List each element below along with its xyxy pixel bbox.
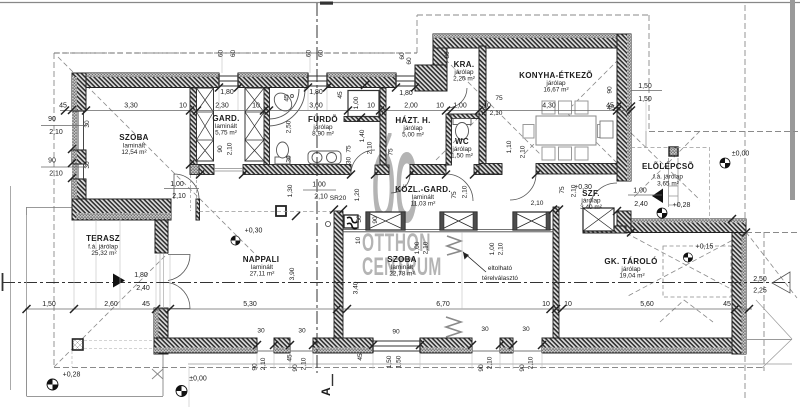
- kitchen counter box: [600, 121, 613, 138]
- svg-text:2,60: 2,60: [104, 301, 118, 308]
- svg-text:90: 90: [252, 363, 259, 371]
- page top border line: [0, 2, 800, 4]
- door thresholds bottom band: [257, 350, 274, 352]
- dims rotated: [84, 50, 614, 372]
- svg-text:NAPPALI: NAPPALI: [243, 255, 280, 264]
- svg-text:90: 90: [372, 216, 379, 224]
- svg-text:5,00 m²: 5,00 m²: [402, 132, 424, 139]
- survey marker elolepcso right: [720, 158, 730, 168]
- svg-text:25,32 m²: 25,32 m²: [91, 250, 116, 257]
- roller shutter circle SR20: [325, 221, 330, 226]
- svg-text:3,90: 3,90: [289, 267, 296, 280]
- svg-text:3,65 m²: 3,65 m²: [657, 181, 679, 188]
- svg-text:10: 10: [564, 301, 572, 308]
- svg-text:FÜRDÕ: FÜRDÕ: [308, 115, 338, 124]
- dim slash ticks: [23, 81, 754, 349]
- section A bottom label: [319, 374, 333, 396]
- wall szf-west: [553, 207, 559, 338]
- survey marker entrance: [657, 208, 667, 218]
- svg-text:+0,28: +0,28: [63, 372, 81, 379]
- svg-text:TERASZ: TERASZ: [86, 234, 120, 243]
- svg-text:1,00: 1,00: [312, 182, 326, 189]
- svg-text:10: 10: [355, 237, 362, 245]
- svg-text:SR20: SR20: [330, 195, 347, 202]
- svg-text:30: 30: [257, 328, 265, 335]
- wall kra-wc east: [479, 46, 486, 165]
- svg-text:90: 90: [292, 364, 299, 372]
- wall szoba-south band: [72, 199, 171, 220]
- terrace slab thin outline: [27, 207, 164, 397]
- svg-text:2,10: 2,10: [520, 145, 527, 158]
- door-width triangle terrace: [113, 274, 125, 288]
- svg-text:1,00: 1,00: [633, 188, 647, 195]
- svg-text:SZOBA: SZOBA: [119, 133, 149, 142]
- svg-text:2,50: 2,50: [753, 276, 767, 283]
- door wc arc: [446, 174, 473, 201]
- wardrobe rail corridor: [343, 230, 553, 232]
- svg-text:1,40: 1,40: [359, 129, 366, 142]
- dim line left row: [41, 125, 86, 127]
- page left border line: [10, 186, 12, 390]
- svg-text:27,11 m²: 27,11 m²: [250, 271, 275, 278]
- wall niche-bottom: [344, 117, 380, 122]
- dim line bottom row: [25, 308, 752, 310]
- svg-text:1,50: 1,50: [638, 83, 652, 90]
- svg-text:1,50: 1,50: [42, 301, 56, 308]
- wardrobe gard right column: [245, 88, 264, 161]
- survey marker terrace sw: [47, 379, 58, 390]
- svg-text:2,10: 2,10: [49, 129, 63, 136]
- dim line szoba door: [164, 188, 199, 190]
- svg-text:2,10: 2,10: [301, 357, 308, 370]
- svg-text:45: 45: [284, 94, 291, 102]
- svg-text:90: 90: [48, 158, 56, 165]
- toilet furdo: [275, 142, 290, 164]
- svg-text:1,00: 1,00: [489, 242, 496, 255]
- east hollow triangle: [772, 272, 790, 293]
- shelf niche furdo: [348, 91, 379, 117]
- dim line entrance door: [628, 194, 662, 196]
- svg-text:10: 10: [252, 103, 260, 110]
- svg-text:2,10: 2,10: [462, 185, 469, 198]
- svg-text:KÖZL.-GARD.: KÖZL.-GARD.: [395, 185, 451, 194]
- svg-text:60: 60: [306, 50, 313, 58]
- svg-text:16,67 m²: 16,67 m²: [543, 87, 568, 94]
- svg-text:+0,15: +0,15: [696, 244, 714, 251]
- svg-text:75: 75: [346, 145, 353, 153]
- chimney: [344, 215, 358, 229]
- svg-text:1,50: 1,50: [396, 355, 403, 368]
- wall hazt-west: [380, 88, 386, 165]
- toilet wc: [453, 119, 471, 140]
- svg-text:3,40 m²: 3,40 m²: [580, 204, 602, 211]
- svg-text:±0,00: ±0,00: [732, 151, 750, 158]
- svg-text:A: A: [319, 387, 333, 396]
- svg-text:30: 30: [522, 326, 530, 333]
- section line A-A vertical: [316, 3, 318, 373]
- section B left tick: [2, 273, 4, 291]
- gable thin diagonals bottom right: [756, 300, 792, 368]
- watermark Otthon Centrum logo: [362, 131, 442, 281]
- wall bottom band pieces: [154, 338, 257, 353]
- wall wing-west: [433, 34, 447, 65]
- door kra arc: [447, 88, 467, 108]
- window west szoba lower: [77, 164, 79, 179]
- svg-text:45: 45: [142, 301, 150, 308]
- door szoba arc: [174, 174, 199, 199]
- svg-text:4,30: 4,30: [542, 103, 556, 110]
- kitchen chairs: [523, 101, 610, 160]
- survey marker nappali: [231, 236, 240, 245]
- wall gard-west: [190, 88, 197, 174]
- svg-text:2,00: 2,00: [404, 103, 418, 110]
- svg-text:6,70: 6,70: [436, 301, 450, 308]
- svg-text:90: 90: [217, 145, 224, 153]
- svg-text:f.á. járólap: f.á. járólap: [653, 174, 683, 181]
- svg-text:75: 75: [388, 148, 395, 156]
- svg-text:KONYHA-ÉTKEZÕ: KONYHA-ÉTKEZÕ: [519, 71, 593, 80]
- svg-text:1,00: 1,00: [170, 181, 184, 188]
- svg-text:1,80: 1,80: [399, 90, 413, 97]
- svg-text:11,03 m²: 11,03 m²: [411, 201, 436, 208]
- wall gk-top band: [626, 219, 746, 233]
- svg-text:1,10: 1,10: [506, 140, 513, 153]
- survey marker garage: [683, 253, 692, 262]
- wall szf-south band: [583, 226, 626, 233]
- svg-text:1,00: 1,00: [353, 96, 360, 109]
- svg-text:45: 45: [59, 103, 67, 110]
- leader arrow eltolhato: [463, 252, 486, 272]
- svg-text:1,00: 1,00: [414, 241, 421, 254]
- dim line top row: [60, 110, 631, 112]
- svg-text:2,10: 2,10: [367, 141, 374, 154]
- svg-text:2,10: 2,10: [49, 171, 63, 178]
- window bottom nappali-szoba 1,50+1,50: [373, 340, 420, 342]
- svg-text:2,10: 2,10: [498, 242, 505, 255]
- svg-text:60: 60: [218, 50, 225, 58]
- svg-text:GARD.: GARD.: [212, 114, 239, 123]
- svg-text:2,10: 2,10: [172, 193, 186, 200]
- svg-text:10: 10: [483, 103, 491, 110]
- svg-text:8,90 m²: 8,90 m²: [312, 131, 334, 138]
- svg-text:75: 75: [451, 191, 458, 199]
- wall nappali-west lower: [154, 308, 168, 354]
- door terrace frame lines: [159, 254, 161, 308]
- svg-text:30: 30: [298, 328, 306, 335]
- svg-text:HÁZT. H.: HÁZT. H.: [395, 116, 430, 125]
- wall main-west: [72, 73, 86, 111]
- svg-text:1,50: 1,50: [638, 96, 652, 103]
- door-width triangle entrance: [652, 189, 663, 204]
- section A top tick: [320, 2, 333, 5]
- svg-text:GK. TÁROLÓ: GK. TÁROLÓ: [604, 257, 657, 266]
- svg-text:10: 10: [542, 301, 550, 308]
- svg-text:60: 60: [230, 50, 237, 58]
- svg-text:19,04 m²: 19,04 m²: [619, 273, 644, 280]
- svg-text:2,10: 2,10: [490, 110, 503, 117]
- door furdo arc: [351, 150, 375, 174]
- wardrobe corridor D: [583, 208, 614, 231]
- svg-text:3,40: 3,40: [353, 281, 360, 294]
- svg-text:30: 30: [346, 157, 353, 165]
- svg-text:1,20: 1,20: [354, 188, 361, 201]
- svg-text:5,30: 5,30: [243, 301, 257, 308]
- svg-text:ELÕLÉPCSÕ: ELÕLÉPCSÕ: [642, 162, 694, 171]
- svg-text:45: 45: [607, 105, 615, 112]
- bathtub corner furdo: [269, 88, 305, 126]
- svg-text:KRA.: KRA.: [454, 60, 475, 69]
- svg-text:WC: WC: [455, 137, 469, 146]
- svg-text:2,10: 2,10: [314, 194, 328, 201]
- svg-text:2,10: 2,10: [227, 142, 234, 155]
- door gard threshold: [214, 168, 243, 170]
- garage parking dashed rectangle: [663, 246, 731, 297]
- svg-text:80: 80: [444, 51, 451, 59]
- svg-text:45: 45: [357, 353, 364, 361]
- svg-text:10: 10: [367, 103, 375, 110]
- svg-text:90: 90: [519, 364, 526, 372]
- kitchen table: [536, 116, 596, 145]
- svg-text:2,10: 2,10: [260, 357, 267, 370]
- dim line 60-row dashed: [54, 52, 417, 54]
- svg-text:1,80: 1,80: [220, 89, 234, 96]
- svg-text:45: 45: [337, 91, 344, 99]
- column nappali: [276, 206, 286, 216]
- svg-text:45: 45: [287, 354, 294, 362]
- svg-text:+0,30: +0,30: [245, 228, 263, 235]
- wall wing-east: [617, 34, 631, 181]
- column terrace: [73, 339, 84, 350]
- window top 1,80 hazt: [396, 75, 415, 77]
- svg-text:2,10: 2,10: [423, 241, 430, 254]
- dim projection light lines: [72, 341, 154, 368]
- wardrobe gard left column: [197, 88, 214, 161]
- wall gard-east: [264, 88, 270, 165]
- svg-text:1,00: 1,00: [453, 103, 467, 110]
- svg-text:térelválasztó: térelválasztó: [482, 275, 518, 282]
- window west szoba upper: [77, 111, 79, 150]
- wall main-top hatch pieces: [72, 73, 219, 88]
- wardrobe corridor A: [366, 212, 405, 230]
- svg-text:±0,00: ±0,00: [189, 376, 207, 383]
- window top 1,80 gard: [219, 75, 238, 77]
- svg-text:3,30: 3,30: [124, 103, 138, 110]
- svg-text:SZOBA: SZOBA: [387, 255, 417, 264]
- survey marker bottom center: [176, 386, 187, 397]
- svg-text:2,10: 2,10: [571, 184, 578, 197]
- wall entrance piece: [617, 211, 631, 233]
- svg-text:50: 50: [356, 215, 363, 223]
- wardrobe corridor C: [513, 212, 550, 230]
- svg-text:30: 30: [84, 161, 91, 169]
- svg-text:30: 30: [286, 155, 293, 163]
- svg-text:90: 90: [48, 116, 56, 123]
- svg-text:12,54 m²: 12,54 m²: [121, 149, 146, 156]
- washbasin double furdo: [308, 151, 341, 164]
- svg-text:75: 75: [559, 186, 566, 194]
- window top 1,80 furdo: [308, 75, 327, 77]
- svg-text:10: 10: [436, 103, 444, 110]
- svg-text:30: 30: [84, 120, 91, 128]
- svg-text:1,50 m²: 1,50 m²: [451, 153, 473, 160]
- svg-text:1,80: 1,80: [134, 272, 148, 279]
- wardrobe corridor B: [440, 212, 477, 230]
- interior partitions: [190, 88, 617, 338]
- svg-text:1,30: 1,30: [287, 184, 294, 197]
- svg-text:45: 45: [723, 301, 731, 308]
- wall wc-top: [451, 114, 479, 119]
- svg-text:22,78 m²: 22,78 m²: [389, 271, 414, 278]
- svg-text:2,20 m²: 2,20 m²: [453, 76, 475, 83]
- roof hip dashed diagonals: [54, 48, 797, 367]
- svg-text:eltolható: eltolható: [488, 265, 513, 272]
- svg-text:90: 90: [478, 364, 485, 372]
- svg-text:2,50: 2,50: [286, 120, 293, 133]
- wall wc-west: [446, 114, 452, 165]
- svg-text:+0,28: +0,28: [673, 202, 691, 209]
- svg-text:60: 60: [399, 52, 406, 60]
- door terrace double leaf lower: [168, 283, 190, 309]
- dim line wing east: [631, 90, 662, 92]
- wall gk-east: [732, 219, 746, 354]
- svg-text:5,60: 5,60: [640, 301, 654, 308]
- svg-text:10: 10: [179, 103, 187, 110]
- column entrance: [669, 147, 678, 156]
- svg-text:1,50: 1,50: [386, 355, 393, 368]
- door entrance arc: [589, 183, 617, 211]
- svg-text:2,10: 2,10: [531, 200, 544, 207]
- svg-text:90: 90: [607, 86, 614, 94]
- sliding partition zigzag szoba: [446, 317, 461, 337]
- entrance steps: [646, 131, 678, 207]
- svg-text:60: 60: [318, 50, 325, 58]
- wall KRA step block: [415, 65, 447, 91]
- paving edge thin line bottom: [188, 363, 792, 365]
- dim line furdo door: [303, 189, 336, 191]
- wall corridor-north pieces: [190, 165, 199, 175]
- svg-text:2,10: 2,10: [528, 356, 535, 369]
- wall kitchen-south pieces: [479, 164, 502, 175]
- svg-text:2,25: 2,25: [753, 288, 767, 295]
- door szf arc: [510, 174, 536, 200]
- door hazt arc: [391, 174, 410, 193]
- door terrace double leaf upper: [168, 255, 190, 281]
- svg-text:90: 90: [392, 329, 400, 336]
- sliding partition zigzag corridor: [447, 236, 461, 255]
- svg-text:2,40: 2,40: [136, 285, 150, 292]
- svg-text:75: 75: [495, 95, 503, 102]
- svg-text:5,75 m²: 5,75 m²: [215, 130, 237, 137]
- svg-text:2,10: 2,10: [487, 356, 494, 369]
- slab corner marks terrace: [152, 369, 163, 379]
- svg-text:1,80: 1,80: [309, 89, 323, 96]
- wall nappali-west upper: [155, 220, 168, 253]
- svg-text:60: 60: [406, 57, 413, 65]
- svg-text:2,40: 2,40: [634, 201, 648, 208]
- wall wing-top: [433, 34, 631, 48]
- svg-text:3,60: 3,60: [309, 103, 323, 110]
- page right scan band: [790, 0, 795, 200]
- wall nappali-szoba: [334, 211, 343, 338]
- section line B-B horizontal: [2, 282, 790, 284]
- svg-text:30: 30: [481, 326, 489, 333]
- svg-text:2,30: 2,30: [215, 103, 229, 110]
